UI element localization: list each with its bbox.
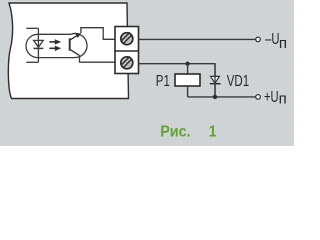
LED vertical wire	[37, 28, 39, 62]
label P1	[156, 71, 170, 89]
label VD1	[227, 71, 250, 89]
light arrow 2	[49, 46, 61, 51]
bottom rail to +Un	[188, 96, 256, 98]
LED diode triangle	[34, 40, 44, 47]
wire to relay	[187, 64, 189, 74]
terminal divider	[115, 50, 139, 52]
svg-text:–U: –U	[265, 29, 279, 48]
label -Un	[265, 29, 279, 48]
collector line with arrow	[70, 33, 82, 40]
wire top rail to -Un	[139, 38, 256, 40]
relay coil P1	[175, 74, 200, 86]
svg-text:Рис.1: Рис.1	[160, 123, 217, 141]
screw terminal 2	[121, 56, 133, 68]
svg-text:P1: P1	[156, 71, 170, 89]
diode VD1 triangle	[211, 76, 220, 83]
sensor body (white housing with torn left edge)	[8, 3, 128, 99]
wire emitter down	[80, 56, 116, 63]
junction node bottom	[213, 95, 217, 99]
wire collector up	[81, 28, 115, 40]
wire cathode to left	[26, 61, 38, 63]
diode wire overlay	[214, 64, 216, 97]
svg-text:п: п	[279, 91, 287, 108]
wire relay down	[187, 86, 189, 97]
svg-text:+U: +U	[264, 87, 279, 106]
terminal circle +Un	[256, 95, 261, 100]
light arrow 1	[49, 39, 61, 44]
optocoupler U1 capsule with phototransistor bulge	[26, 34, 87, 58]
phototransistor base bar	[69, 38, 71, 50]
screw terminal 1	[121, 32, 133, 44]
wire lower rail	[139, 64, 216, 97]
emitter line	[70, 49, 80, 55]
svg-text:VD1: VD1	[227, 71, 250, 89]
LED cathode bar	[34, 47, 44, 49]
caption Fig.1	[160, 123, 217, 141]
terminal circle -Un	[256, 37, 261, 42]
junction node	[185, 62, 189, 66]
svg-text:п: п	[279, 35, 287, 52]
terminal block	[115, 27, 139, 74]
diode cathode bar	[210, 83, 221, 85]
wire anode to left	[26, 27, 38, 29]
label +Un	[264, 87, 279, 106]
